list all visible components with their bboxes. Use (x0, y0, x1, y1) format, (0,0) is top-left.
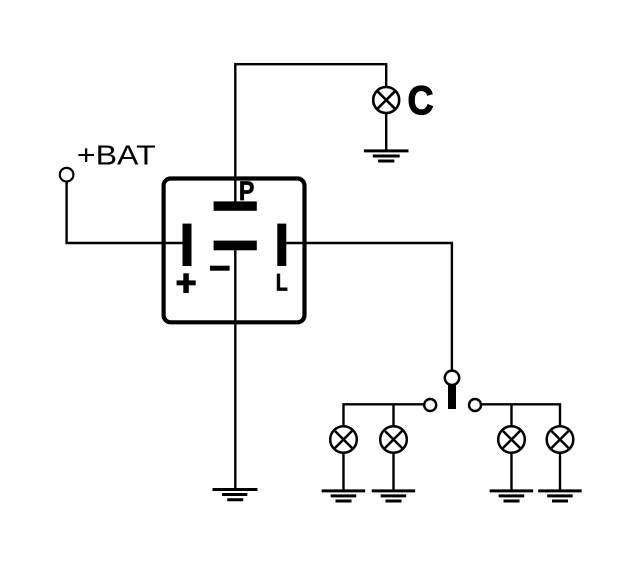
svg-text:P: P (239, 176, 255, 206)
svg-text:L: L (276, 269, 288, 296)
svg-text:C: C (408, 79, 434, 123)
svg-text:+BAT: +BAT (77, 140, 156, 171)
